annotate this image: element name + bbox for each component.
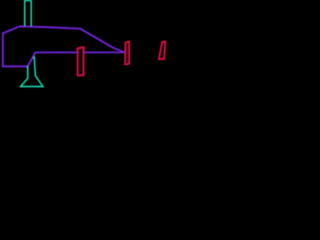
red rectangle 3 xyxy=(159,41,166,59)
red rectangle 2 xyxy=(125,41,129,64)
red rectangle 1 xyxy=(78,47,84,75)
purple hull polygon xyxy=(3,26,125,66)
teal chimney rectangle xyxy=(25,1,32,28)
teal flask xyxy=(21,57,43,87)
